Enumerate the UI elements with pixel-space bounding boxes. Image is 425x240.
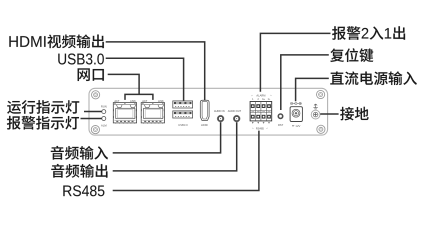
ground screw — [311, 110, 320, 119]
+12V label — [292, 124, 301, 128]
callout line DC power — [296, 78, 329, 101]
label USB3.0 — [58, 53, 104, 64]
screw bottom-right — [317, 125, 325, 133]
label network port — [78, 68, 104, 81]
callout line network port — [108, 74, 139, 94]
LED run indicator — [102, 110, 106, 114]
svg-text:12V: 12V — [295, 124, 300, 128]
callout line HDMI output — [106, 42, 205, 100]
callout line alarm terminal — [260, 33, 330, 91]
callout branch to both RJ45 ports — [125, 94, 153, 100]
reset button — [278, 114, 282, 118]
callout line ground — [320, 113, 338, 115]
DC polarity symbol — [290, 102, 301, 104]
svg-text:ALARM: ALARM — [256, 93, 265, 97]
callout line audio out — [113, 122, 237, 171]
callout line run LED — [84, 111, 102, 113]
label run indicator — [7, 100, 79, 114]
ground symbol — [313, 104, 317, 110]
svg-text:ALM: ALM — [101, 124, 107, 128]
label alarm indicator — [7, 116, 79, 130]
svg-text:RS485: RS485 — [256, 127, 264, 131]
label audio input — [51, 146, 108, 160]
label reset key — [330, 48, 373, 62]
label DC power input — [330, 71, 417, 85]
USB port 1 — [173, 101, 193, 108]
ALARM label — [251, 93, 271, 97]
screw top-right — [317, 90, 325, 98]
DC power jack — [290, 107, 302, 122]
svg-text:RUN: RUN — [101, 105, 107, 109]
svg-text:HDMI: HDMI — [201, 123, 208, 127]
terminal pin labels — [252, 99, 270, 101]
RS485 port label — [252, 127, 267, 131]
svg-text:AUDIO IN: AUDIO IN — [214, 110, 225, 113]
callout line RS485 — [113, 131, 259, 191]
label ground — [340, 107, 368, 121]
svg-text:RST: RST — [278, 123, 284, 127]
label RS485 — [63, 185, 104, 196]
svg-text:AUDIO OUT: AUDIO OUT — [228, 110, 242, 113]
ethernet RJ45 port 2 — [141, 103, 164, 124]
terminal bottom marks — [252, 122, 254, 124]
callout line reset — [281, 55, 329, 110]
svg-text:G-: G- — [268, 99, 271, 101]
HDMI port — [200, 100, 209, 120]
ethernet RJ45 port 1 — [113, 103, 136, 124]
screw bottom-left — [91, 126, 99, 134]
label alarm 2in 1out — [332, 26, 405, 40]
audio input jack — [217, 115, 224, 122]
screw top-left — [92, 91, 100, 99]
LED alarm indicator — [102, 117, 106, 121]
alarm/RS485 terminal block — [250, 102, 272, 121]
device rear panel — [89, 88, 328, 135]
label HDMI video output — [9, 34, 104, 48]
callout line alarm LED — [81, 118, 102, 120]
callout line USB3.0 — [106, 58, 184, 101]
audio output jack — [233, 115, 240, 122]
label audio output — [51, 164, 107, 178]
callout line audio in — [113, 122, 221, 153]
USB port 2 — [173, 111, 193, 118]
svg-text:USB3.0: USB3.0 — [178, 123, 188, 127]
